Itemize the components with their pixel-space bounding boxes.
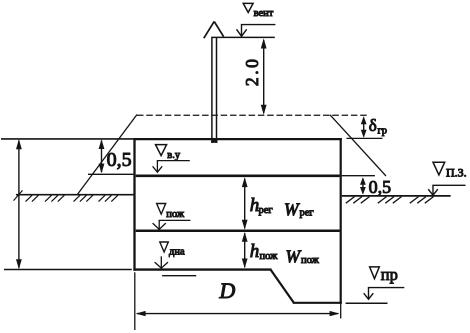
right ground hatching	[346, 197, 434, 204]
top-left reference line (roof level)	[1, 138, 133, 140]
svg-text:гр: гр	[378, 126, 388, 137]
level mark V_P.Z.	[428, 162, 466, 195]
pipe top line	[211, 36, 275, 38]
svg-text:δ: δ	[369, 116, 377, 135]
svg-text:рег: рег	[300, 208, 315, 219]
level mark V_pr	[346, 265, 405, 303]
svg-text:вент: вент	[254, 8, 274, 19]
dimension h_reg	[242, 177, 274, 229]
fire level line pozh	[136, 230, 340, 233]
dimension 2.0	[242, 38, 267, 115]
level mark V_vent leader	[237, 25, 276, 37]
left ground line	[16, 194, 133, 196]
dimension D bottom	[136, 278, 340, 316]
svg-text:в.у: в.у	[167, 150, 181, 161]
right slope of mound	[330, 115, 386, 176]
right extension line for D	[340, 304, 342, 319]
level mark V_dna	[155, 242, 197, 276]
svg-text:П.З.: П.З.	[446, 166, 467, 180]
svg-text:пож: пож	[301, 255, 320, 266]
pit floor	[293, 302, 342, 304]
v.u. left extension line	[88, 173, 133, 175]
water level line v.u.	[136, 174, 340, 177]
left slope of mound	[77, 115, 137, 196]
vent pipe cap	[204, 22, 224, 39]
left ground hatching	[26, 195, 118, 201]
level mark V_v.u.	[153, 145, 190, 173]
svg-text:W: W	[284, 200, 300, 220]
svg-text:0,5: 0,5	[369, 177, 392, 197]
overall height dimension left	[16, 139, 22, 269]
svg-text:h: h	[250, 241, 259, 262]
svg-text:пр: пр	[381, 265, 398, 284]
dimension h_pozh	[242, 232, 278, 268]
svg-text:W: W	[286, 246, 302, 266]
svg-text:2.0: 2.0	[242, 56, 262, 86]
tank right wall	[340, 138, 342, 304]
roof level reference line right	[347, 137, 383, 139]
volume label W_reg	[284, 200, 314, 220]
dimension delta_gr right	[361, 116, 387, 138]
mound top dashed line	[137, 114, 369, 116]
pit slope	[271, 270, 294, 303]
dimension 0,5 right	[360, 177, 391, 197]
tank roof	[133, 138, 341, 140]
level mark V_pozh	[153, 204, 191, 230]
volume label W_pozh	[286, 246, 320, 266]
svg-text:0,5: 0,5	[107, 149, 132, 171]
vent pipe	[211, 38, 217, 144]
level mark V_vent label	[243, 3, 274, 19]
tank left wall	[133, 138, 135, 271]
svg-text:D: D	[218, 278, 235, 303]
left ground break tick	[14, 190, 23, 200]
bottom-left reference line (floor level)	[4, 269, 132, 271]
svg-text:рег: рег	[259, 205, 274, 216]
dimension 0,5 left	[99, 139, 132, 173]
svg-text:дна: дна	[169, 246, 185, 257]
tank floor	[133, 268, 271, 270]
right ground line P.Z.	[342, 195, 451, 197]
svg-text:пож: пож	[260, 251, 279, 262]
v.u. right extension line	[342, 175, 375, 177]
left extension line for D	[134, 272, 136, 330]
svg-text:пож: пож	[166, 209, 185, 220]
